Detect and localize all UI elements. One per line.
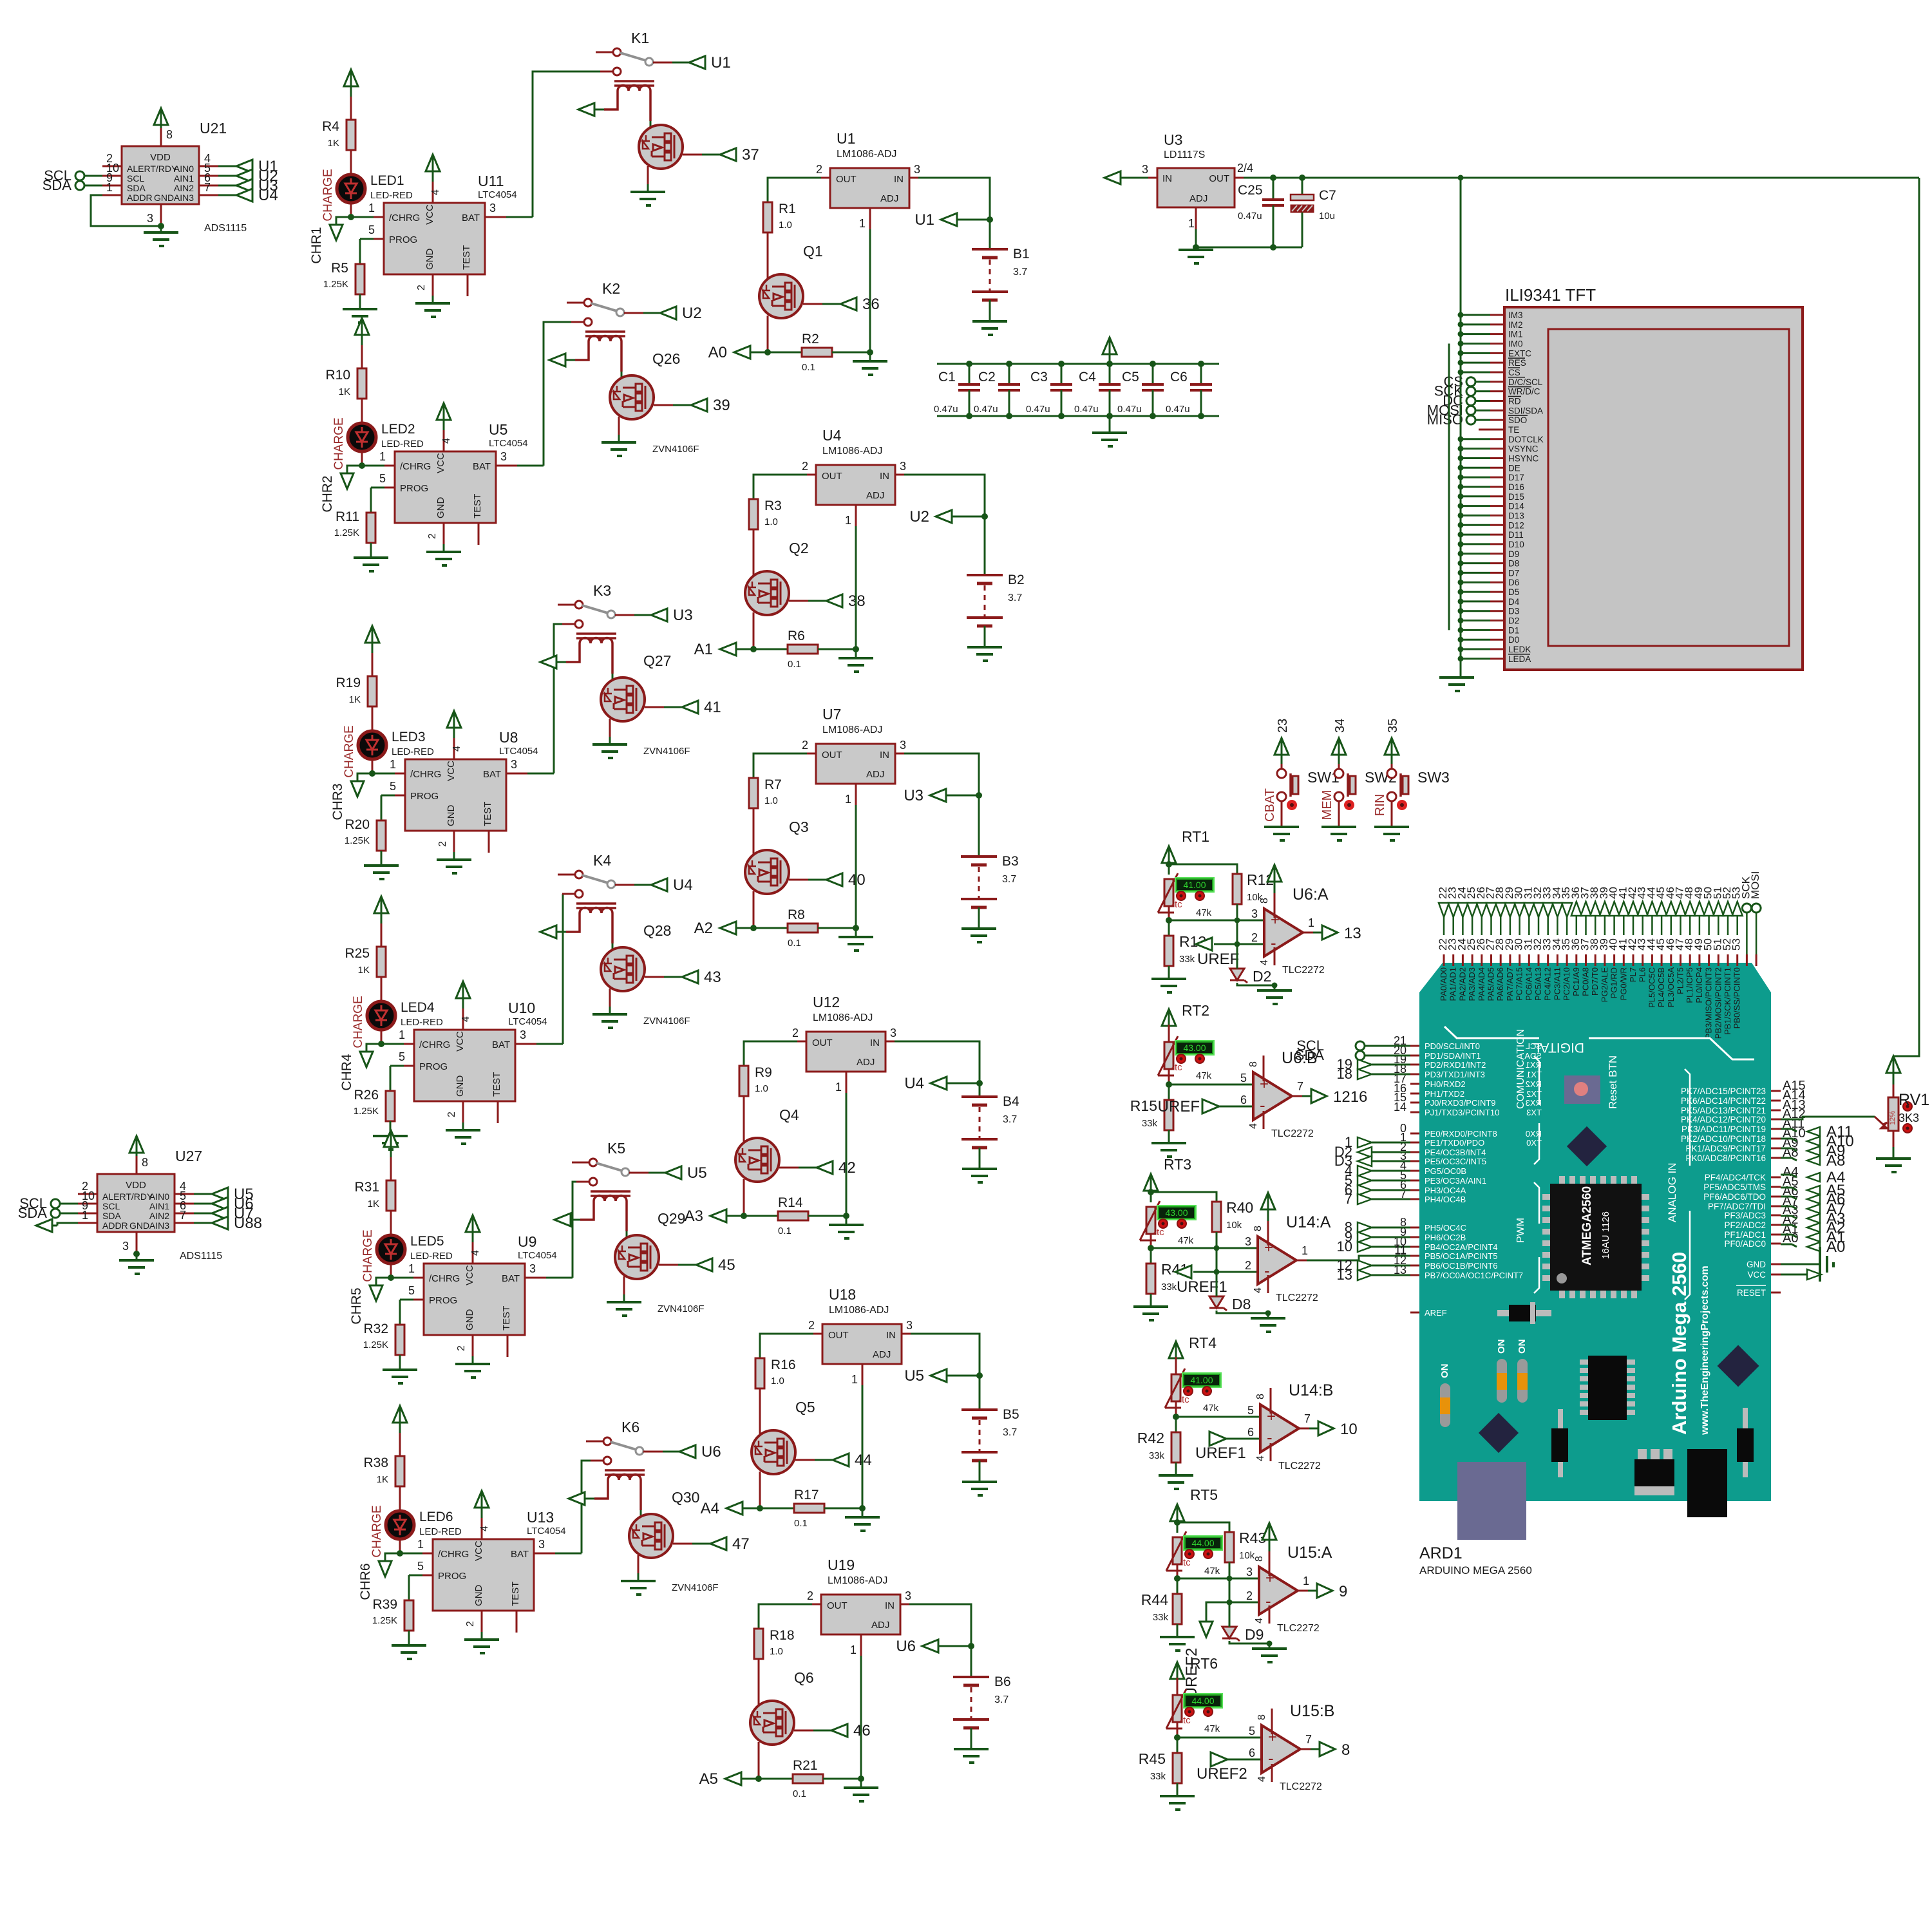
svg-text:10k: 10k — [1226, 1220, 1242, 1231]
svg-text:R42: R42 — [1137, 1430, 1164, 1446]
svg-text:LTC4054: LTC4054 — [499, 746, 538, 757]
svg-text:AIN2: AIN2 — [174, 183, 194, 193]
svg-text:16AU 1126: 16AU 1126 — [1600, 1211, 1611, 1259]
svg-text:33k: 33k — [1150, 1771, 1166, 1782]
svg-text:PA6/AD6: PA6/AD6 — [1495, 967, 1505, 1001]
svg-text:1.25K: 1.25K — [345, 835, 370, 846]
svg-text:PF7/ADC7/TDI: PF7/ADC7/TDI — [1708, 1202, 1766, 1211]
svg-text:PL1/ICP5: PL1/ICP5 — [1685, 967, 1694, 1003]
svg-text:CHARGE: CHARGE — [321, 169, 335, 221]
svg-text:ARDUINO MEGA 2560: ARDUINO MEGA 2560 — [1419, 1564, 1532, 1577]
svg-text:U6: U6 — [896, 1638, 916, 1655]
svg-text:4: 4 — [1256, 1776, 1267, 1782]
svg-text:ADS1115: ADS1115 — [204, 223, 247, 234]
svg-text:LED2: LED2 — [381, 422, 415, 437]
svg-text:DOTCLK: DOTCLK — [1508, 435, 1544, 444]
svg-text:PF1/ADC1: PF1/ADC1 — [1724, 1230, 1766, 1240]
svg-text:Q30: Q30 — [672, 1489, 699, 1506]
svg-text:GND: GND — [435, 497, 446, 519]
svg-text:1.25K: 1.25K — [363, 1340, 388, 1350]
svg-text:18: 18 — [1337, 1066, 1352, 1082]
svg-text:EXTC: EXTC — [1508, 348, 1531, 358]
svg-text:U1: U1 — [711, 54, 731, 71]
svg-text:ADDR: ADDR — [127, 193, 153, 203]
svg-text:A4: A4 — [701, 1500, 719, 1517]
svg-text:CHARGE: CHARGE — [370, 1505, 384, 1557]
svg-text:PC7/A15: PC7/A15 — [1515, 967, 1524, 1001]
svg-text:D2: D2 — [1508, 616, 1519, 626]
svg-text:2: 2 — [802, 460, 808, 473]
svg-text:0.47u: 0.47u — [1026, 404, 1050, 415]
svg-text:PWM: PWM — [1515, 1218, 1526, 1243]
svg-text:R4: R4 — [322, 119, 339, 134]
svg-text:C25: C25 — [1238, 183, 1263, 198]
svg-text:R45: R45 — [1139, 1750, 1166, 1767]
svg-text:TLC2272: TLC2272 — [1278, 1461, 1321, 1472]
svg-text:3: 3 — [1142, 163, 1148, 176]
svg-text:LTC4054: LTC4054 — [527, 1526, 566, 1537]
svg-text:IM2: IM2 — [1508, 320, 1523, 330]
svg-text:SW3: SW3 — [1417, 769, 1450, 786]
svg-text:TEST: TEST — [461, 245, 472, 270]
svg-text:ADJ: ADJ — [873, 1349, 891, 1360]
svg-text:2: 2 — [802, 739, 808, 752]
svg-text:R20: R20 — [345, 817, 370, 832]
svg-text:R39: R39 — [372, 1597, 397, 1612]
svg-text:U10: U10 — [508, 999, 535, 1016]
svg-text:PC2/A10: PC2/A10 — [1562, 967, 1571, 1001]
svg-text:WR/D/C: WR/D/C — [1508, 387, 1540, 397]
svg-text:34: 34 — [1333, 719, 1347, 733]
svg-text:ZVN4106F: ZVN4106F — [643, 746, 690, 757]
svg-text:B4: B4 — [1003, 1094, 1019, 1109]
svg-text:RV1: RV1 — [1899, 1091, 1929, 1109]
svg-text:TEST: TEST — [491, 1072, 502, 1097]
svg-text:AIN3: AIN3 — [149, 1220, 169, 1231]
svg-text:K3: K3 — [593, 582, 611, 599]
svg-text:4: 4 — [451, 746, 462, 752]
svg-text:PE3/OC3A/AIN1: PE3/OC3A/AIN1 — [1425, 1176, 1486, 1186]
svg-text:-tc: -tc — [1180, 1557, 1191, 1568]
svg-text:TLC2272: TLC2272 — [1276, 1293, 1318, 1303]
svg-text:4: 4 — [441, 438, 452, 444]
svg-text:PK2/ADC10/PCINT18: PK2/ADC10/PCINT18 — [1681, 1134, 1766, 1144]
svg-text:PC3/A11: PC3/A11 — [1552, 967, 1562, 1000]
svg-text:LTC4054: LTC4054 — [518, 1250, 557, 1261]
svg-text:BAT: BAT — [511, 1549, 529, 1560]
svg-text:1.25K: 1.25K — [323, 279, 348, 290]
svg-text:33k: 33k — [1153, 1612, 1169, 1623]
svg-text:SCL: SCL — [127, 173, 144, 184]
svg-text:0.47u: 0.47u — [934, 404, 958, 415]
svg-text:ZVN4106F: ZVN4106F — [658, 1303, 705, 1314]
svg-text:U21: U21 — [200, 120, 227, 137]
svg-text:2/4: 2/4 — [1237, 162, 1253, 175]
svg-text:LM1086-ADJ: LM1086-ADJ — [828, 1575, 887, 1586]
svg-text:33k: 33k — [1161, 1282, 1177, 1293]
svg-text:PROG: PROG — [438, 1571, 466, 1582]
svg-text:D4: D4 — [1508, 597, 1520, 607]
svg-text:U3: U3 — [673, 607, 693, 624]
svg-text:PROG: PROG — [410, 791, 439, 802]
svg-text:LTC4054: LTC4054 — [508, 1016, 547, 1027]
svg-text:1: 1 — [835, 1081, 842, 1094]
svg-text:COMUNICATION: COMUNICATION — [1515, 1029, 1526, 1109]
svg-text:PH3/OC4A: PH3/OC4A — [1425, 1186, 1466, 1195]
svg-text:LM1086-ADJ: LM1086-ADJ — [822, 446, 882, 457]
svg-text:UREF1: UREF1 — [1177, 1278, 1227, 1296]
svg-text:1: 1 — [82, 1209, 88, 1222]
svg-text:PL5/OC5C: PL5/OC5C — [1647, 967, 1656, 1008]
svg-text:IN: IN — [1162, 173, 1172, 184]
svg-text:CHR3: CHR3 — [330, 783, 345, 820]
svg-text:2: 2 — [792, 1027, 799, 1039]
svg-text:ARD1: ARD1 — [1419, 1544, 1463, 1562]
svg-text:BAT: BAT — [492, 1039, 510, 1050]
svg-text:SDO: SDO — [1508, 415, 1527, 425]
svg-text:R19: R19 — [336, 676, 361, 690]
svg-text:IN: IN — [870, 1037, 880, 1048]
svg-text:2: 2 — [416, 285, 427, 290]
svg-text:0.47u: 0.47u — [1117, 404, 1142, 415]
svg-text:Q27: Q27 — [643, 652, 671, 669]
svg-text:-tc: -tc — [1179, 1394, 1189, 1405]
svg-text:PA5/AD5: PA5/AD5 — [1486, 967, 1496, 1001]
svg-text:PD7/T0: PD7/T0 — [1590, 967, 1600, 996]
svg-text:8: 8 — [1253, 1226, 1264, 1231]
svg-text:PK7/ADC15/PCINT23: PK7/ADC15/PCINT23 — [1681, 1086, 1766, 1096]
svg-text:ZVN4106F: ZVN4106F — [672, 1582, 719, 1593]
svg-text:Arduino Mega 2560: Arduino Mega 2560 — [1668, 1252, 1690, 1435]
svg-text:AIN0: AIN0 — [174, 164, 194, 174]
svg-text:R17: R17 — [794, 1488, 819, 1502]
svg-text:K2: K2 — [602, 280, 620, 297]
svg-text:43: 43 — [704, 969, 721, 986]
svg-text:C3: C3 — [1030, 370, 1048, 384]
svg-text:OUT: OUT — [812, 1037, 833, 1048]
svg-text:OUT: OUT — [822, 471, 842, 482]
svg-text:R10: R10 — [325, 368, 350, 383]
svg-text:LED3: LED3 — [392, 730, 426, 744]
svg-text:1.0: 1.0 — [771, 1376, 784, 1387]
svg-text:R18: R18 — [770, 1628, 795, 1643]
svg-text:3: 3 — [538, 1538, 545, 1551]
svg-text:U5: U5 — [904, 1367, 924, 1385]
svg-text:A3: A3 — [685, 1207, 703, 1225]
svg-text:BAT: BAT — [462, 213, 480, 223]
svg-text:PG5/OC0B: PG5/OC0B — [1425, 1166, 1466, 1176]
svg-text:U3: U3 — [904, 787, 923, 804]
svg-text:3: 3 — [1246, 1566, 1253, 1578]
svg-text:ADJ: ADJ — [880, 193, 898, 204]
svg-text:1: 1 — [850, 1643, 857, 1656]
svg-text:13: 13 — [1337, 1267, 1352, 1283]
svg-text:1: 1 — [1308, 916, 1314, 929]
svg-text:AIN3: AIN3 — [174, 193, 194, 203]
svg-text:AIN0: AIN0 — [149, 1191, 169, 1202]
svg-text:B6: B6 — [994, 1674, 1011, 1689]
svg-text:PB1/SCK/PCINT1: PB1/SCK/PCINT1 — [1723, 967, 1732, 1035]
svg-text:R25: R25 — [345, 946, 370, 961]
svg-text:U14:A: U14:A — [1286, 1213, 1331, 1231]
svg-text:CHR2: CHR2 — [320, 475, 335, 512]
svg-text:1.0: 1.0 — [770, 1646, 783, 1657]
svg-text:10: 10 — [1337, 1238, 1352, 1255]
svg-text:U6:A: U6:A — [1293, 885, 1329, 904]
svg-text:OUT: OUT — [1209, 173, 1229, 184]
svg-text:K1: K1 — [631, 30, 649, 46]
svg-text:IN: IN — [886, 1330, 896, 1341]
svg-text:44.00: 44.00 — [1191, 1696, 1214, 1706]
svg-text:RT5: RT5 — [1190, 1486, 1218, 1503]
svg-text:2: 2 — [816, 163, 822, 176]
svg-text:PK3/ADC11/PCINT19: PK3/ADC11/PCINT19 — [1681, 1124, 1766, 1134]
svg-text:/CHRG: /CHRG — [429, 1273, 460, 1284]
svg-text:ZVN4106F: ZVN4106F — [643, 1016, 690, 1027]
svg-text:IM0: IM0 — [1508, 339, 1523, 348]
svg-text:D16: D16 — [1508, 482, 1524, 492]
svg-text:ADJ: ADJ — [1189, 193, 1207, 204]
svg-text:LED-RED: LED-RED — [419, 1526, 462, 1537]
svg-text:U5: U5 — [687, 1164, 707, 1182]
svg-text:R40: R40 — [1226, 1199, 1253, 1216]
svg-text:B1: B1 — [1013, 247, 1030, 261]
svg-text:BAT: BAT — [502, 1273, 520, 1284]
svg-text:7: 7 — [1304, 1412, 1311, 1425]
svg-text:TLC2272: TLC2272 — [1271, 1128, 1314, 1139]
svg-text:1: 1 — [390, 758, 396, 771]
svg-text:7: 7 — [1345, 1191, 1352, 1207]
svg-text:R7: R7 — [764, 777, 782, 792]
svg-text:LED-RED: LED-RED — [410, 1251, 453, 1262]
svg-text:U4: U4 — [822, 427, 842, 444]
svg-text:MEM: MEM — [1320, 790, 1334, 820]
svg-text:R15: R15 — [1130, 1097, 1157, 1114]
svg-text:3.7: 3.7 — [1008, 592, 1022, 603]
svg-text:PE5/OC3C/INT5: PE5/OC3C/INT5 — [1425, 1157, 1486, 1166]
svg-text:PB7/OC0A/OC1C/PCINT7: PB7/OC0A/OC1C/PCINT7 — [1425, 1271, 1523, 1280]
svg-text:TEST: TEST — [472, 494, 483, 518]
svg-text:PD3/TXD1/INT3: PD3/TXD1/INT3 — [1425, 1070, 1485, 1079]
svg-text:3: 3 — [900, 460, 906, 473]
svg-text:PH6/OC2B: PH6/OC2B — [1425, 1233, 1466, 1242]
svg-text:RIN: RIN — [1373, 794, 1387, 816]
svg-text:IN: IN — [880, 750, 889, 761]
svg-text:1K: 1K — [358, 965, 370, 976]
svg-text:PROG: PROG — [419, 1061, 448, 1072]
svg-text:VCC: VCC — [435, 453, 446, 473]
svg-text:33k: 33k — [1142, 1118, 1158, 1129]
svg-text:8: 8 — [1341, 1741, 1350, 1759]
svg-text:GND: GND — [473, 1585, 484, 1607]
svg-text:LED1: LED1 — [370, 173, 404, 188]
svg-text:RT4: RT4 — [1189, 1334, 1217, 1351]
svg-text:RT1: RT1 — [1182, 828, 1209, 845]
svg-text:PB0/SS/PCINT0: PB0/SS/PCINT0 — [1732, 967, 1742, 1028]
svg-text:PE0/RXD0/PCINT8: PE0/RXD0/PCINT8 — [1425, 1129, 1497, 1139]
svg-text:ON: ON — [1496, 1340, 1507, 1354]
svg-text:PROG: PROG — [389, 234, 417, 245]
svg-text:/CHRG: /CHRG — [419, 1039, 450, 1050]
svg-text:PD2/RXD1/INT2: PD2/RXD1/INT2 — [1425, 1060, 1486, 1070]
svg-text:47: 47 — [732, 1535, 750, 1553]
svg-text:U13: U13 — [527, 1509, 554, 1526]
svg-text:PG0/WR: PG0/WR — [1618, 967, 1628, 1000]
svg-text:ALERT/RDY: ALERT/RDY — [102, 1191, 153, 1202]
svg-text:1: 1 — [859, 217, 866, 230]
svg-text:0.1: 0.1 — [788, 938, 801, 949]
svg-text:7: 7 — [204, 181, 211, 194]
svg-text:RESET: RESET — [1737, 1288, 1766, 1298]
svg-text:R31: R31 — [354, 1180, 379, 1195]
svg-text:R3: R3 — [764, 498, 782, 513]
svg-text:CHARGE: CHARGE — [343, 725, 356, 777]
svg-text:U14:B: U14:B — [1289, 1381, 1333, 1399]
svg-text:0.1: 0.1 — [788, 659, 801, 670]
svg-text:43.00: 43.00 — [1183, 1043, 1206, 1053]
svg-text:3.7: 3.7 — [1003, 1114, 1017, 1125]
svg-text:LM1086-ADJ: LM1086-ADJ — [813, 1012, 873, 1023]
svg-text:U6: U6 — [701, 1443, 721, 1461]
svg-text:www.TheEngineeringProjects.com: www.TheEngineeringProjects.com — [1700, 1265, 1710, 1435]
svg-text:VDD: VDD — [126, 1180, 146, 1191]
svg-text:D8: D8 — [1232, 1296, 1251, 1312]
svg-text:R14: R14 — [778, 1195, 803, 1210]
svg-text:Q4: Q4 — [779, 1106, 799, 1123]
svg-text:SDA: SDA — [102, 1211, 121, 1221]
svg-text:R32: R32 — [363, 1321, 388, 1336]
svg-text:PA3/AD3: PA3/AD3 — [1467, 967, 1477, 1001]
svg-text:A2: A2 — [694, 920, 713, 937]
svg-text:PC5/A13: PC5/A13 — [1533, 967, 1543, 1001]
svg-text:5: 5 — [368, 223, 375, 236]
svg-text:PJ1/TXD3/PCINT10: PJ1/TXD3/PCINT10 — [1425, 1108, 1499, 1117]
svg-text:1: 1 — [851, 1373, 858, 1386]
svg-text:MISO: MISO — [1427, 412, 1463, 428]
svg-text:Q26: Q26 — [652, 350, 680, 367]
svg-text:2: 2 — [807, 1589, 813, 1602]
svg-text:VCC: VCC — [455, 1031, 466, 1052]
svg-text:Q3: Q3 — [789, 819, 809, 835]
svg-text:VCC: VCC — [1747, 1270, 1766, 1280]
svg-text:47k: 47k — [1203, 1403, 1219, 1414]
svg-text:R2: R2 — [802, 332, 819, 346]
svg-text:SDA: SDA — [127, 183, 146, 193]
svg-text:44.00: 44.00 — [1191, 1538, 1214, 1548]
svg-text:4: 4 — [460, 1016, 471, 1022]
svg-text:PF6/ADC6/TDO: PF6/ADC6/TDO — [1703, 1192, 1766, 1202]
svg-text:9: 9 — [1339, 1583, 1347, 1600]
svg-text:U18: U18 — [829, 1286, 856, 1303]
svg-text:R5: R5 — [331, 261, 348, 276]
svg-text:U1: U1 — [837, 130, 855, 147]
svg-text:8: 8 — [142, 1156, 148, 1169]
svg-text:1.25K: 1.25K — [354, 1106, 379, 1117]
svg-text:10u: 10u — [1319, 211, 1335, 222]
svg-text:LED-RED: LED-RED — [370, 190, 413, 201]
svg-text:OUT: OUT — [827, 1600, 848, 1611]
svg-text:1216: 1216 — [1333, 1088, 1367, 1106]
svg-text:PL4/OC5B: PL4/OC5B — [1656, 967, 1666, 1007]
svg-text:PF3/ADC3: PF3/ADC3 — [1724, 1211, 1766, 1220]
svg-text:VDD: VDD — [150, 152, 171, 163]
svg-text:4: 4 — [1248, 1123, 1259, 1129]
svg-text:33k: 33k — [1179, 954, 1195, 965]
svg-text:14: 14 — [1394, 1101, 1406, 1113]
svg-text:12%: 12% — [1889, 1111, 1897, 1125]
svg-text:6: 6 — [1247, 1426, 1254, 1439]
svg-text:D/C/SCL: D/C/SCL — [1508, 377, 1543, 387]
svg-text:PC6/A14: PC6/A14 — [1524, 967, 1533, 1001]
svg-text:ATMEGA2560: ATMEGA2560 — [1580, 1186, 1594, 1265]
svg-text:PC4/A12: PC4/A12 — [1543, 967, 1553, 1001]
svg-text:3: 3 — [122, 1240, 129, 1253]
svg-text:ADS1115: ADS1115 — [180, 1251, 222, 1262]
svg-text:U7: U7 — [822, 706, 841, 723]
svg-text:6: 6 — [1249, 1747, 1255, 1759]
svg-text:3: 3 — [1251, 907, 1258, 920]
svg-text:IN: IN — [885, 1600, 895, 1611]
svg-text:3.7: 3.7 — [1002, 874, 1016, 885]
svg-text:2: 2 — [437, 841, 448, 847]
svg-text:PB2/MOSI/PCINT2: PB2/MOSI/PCINT2 — [1713, 967, 1723, 1039]
svg-text:PH0/RXD2: PH0/RXD2 — [1425, 1079, 1466, 1089]
svg-text:PA7/AD7: PA7/AD7 — [1505, 967, 1515, 1001]
svg-text:/CHRG: /CHRG — [410, 769, 441, 780]
svg-text:D12: D12 — [1508, 520, 1524, 530]
svg-text:D8: D8 — [1508, 559, 1519, 569]
svg-text:5: 5 — [379, 472, 386, 485]
svg-text:47k: 47k — [1204, 1723, 1220, 1734]
svg-text:TLC2272: TLC2272 — [1277, 1623, 1320, 1634]
svg-text:PB6/OC1B/PCINT6: PB6/OC1B/PCINT6 — [1425, 1261, 1497, 1271]
svg-text:U19: U19 — [828, 1557, 855, 1573]
svg-text:D11: D11 — [1508, 530, 1524, 540]
svg-text:3: 3 — [900, 739, 906, 752]
svg-text:33k: 33k — [1149, 1450, 1165, 1461]
svg-text:0.47u: 0.47u — [1074, 404, 1099, 415]
svg-text:TLC2272: TLC2272 — [1280, 1781, 1322, 1792]
svg-text:RT2: RT2 — [1182, 1002, 1209, 1019]
svg-text:3: 3 — [1245, 1235, 1251, 1248]
svg-text:3: 3 — [906, 1319, 913, 1332]
svg-text:IM3: IM3 — [1508, 310, 1523, 320]
svg-text:1.0: 1.0 — [779, 220, 792, 231]
svg-text:PK5/ADC13/PCINT21: PK5/ADC13/PCINT21 — [1681, 1106, 1766, 1115]
svg-text:U11: U11 — [478, 173, 504, 189]
svg-text:1: 1 — [417, 1538, 424, 1551]
svg-text:UREF1: UREF1 — [1195, 1444, 1246, 1462]
svg-text:U3: U3 — [1164, 131, 1182, 148]
svg-text:IN: IN — [880, 471, 889, 482]
svg-text:43.00: 43.00 — [1165, 1207, 1188, 1218]
svg-text:2: 2 — [1251, 931, 1258, 944]
svg-text:TE: TE — [1508, 425, 1519, 435]
svg-text:UREF: UREF — [1197, 951, 1239, 968]
svg-text:PC0/A8: PC0/A8 — [1581, 967, 1591, 996]
svg-text:0.1: 0.1 — [794, 1518, 808, 1529]
svg-text:11: 11 — [1394, 1244, 1406, 1256]
svg-text:A5: A5 — [699, 1770, 718, 1788]
svg-text:CHR6: CHR6 — [358, 1563, 373, 1600]
svg-text:53: 53 — [1730, 938, 1743, 951]
svg-text:K6: K6 — [621, 1419, 639, 1435]
svg-text:PL7: PL7 — [1628, 967, 1638, 982]
svg-text:PB3/MISO/PCINT3: PB3/MISO/PCINT3 — [1704, 967, 1714, 1039]
svg-text:1: 1 — [1302, 1244, 1308, 1257]
svg-text:8: 8 — [166, 128, 173, 141]
svg-text:R44: R44 — [1141, 1591, 1168, 1608]
